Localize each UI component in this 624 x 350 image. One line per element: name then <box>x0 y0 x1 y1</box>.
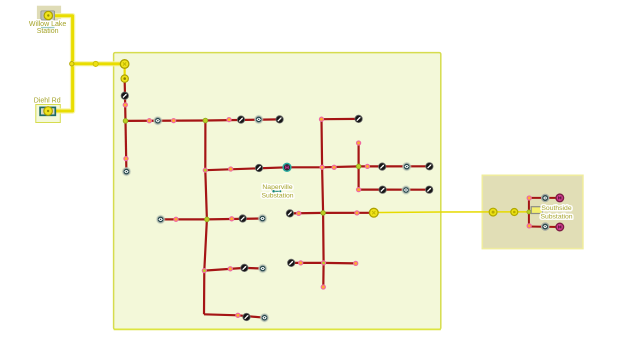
substation symbol Willow Lake <box>41 11 55 20</box>
fuse FU4 <box>156 215 165 224</box>
switch SW4 <box>239 215 246 222</box>
svg-text:Naperville: Naperville <box>262 184 292 191</box>
switch YS2 yellow <box>511 209 518 216</box>
node P5 <box>123 156 128 161</box>
wire line3 tie <box>290 212 374 215</box>
feeder service area Naperville (green box) <box>114 53 441 330</box>
substation area Southside (beige box) <box>482 175 583 248</box>
wire yellow tie line to Southside <box>374 211 529 214</box>
fuse FU9 <box>401 185 410 194</box>
node P1 <box>123 102 128 107</box>
switch SW9 <box>426 163 433 170</box>
switch SW6 <box>243 313 250 320</box>
switch SW2 <box>237 116 244 123</box>
feeder box Diehl Rd <box>36 105 61 123</box>
label Diehl Rd <box>34 97 61 104</box>
node P9 <box>235 313 240 318</box>
svg-text:Substation: Substation <box>540 213 572 220</box>
substation symbol Southside <box>531 207 542 214</box>
switch SW12 <box>288 259 295 266</box>
svg-text:Diehl Rd: Diehl Rd <box>34 97 61 104</box>
node P15 <box>321 284 326 289</box>
switch SW10 <box>355 115 362 122</box>
label Willow Lake Station <box>29 21 66 35</box>
junction Southside tie <box>527 210 531 214</box>
switch SW5 <box>241 264 248 271</box>
feeder symbol Diehl Rd <box>40 107 55 116</box>
wire bottom branch at corner C1 <box>204 314 265 317</box>
node P7 <box>229 216 234 221</box>
node P19 <box>353 261 358 266</box>
junction J3 <box>205 217 210 222</box>
wire Southside top bay <box>529 197 560 199</box>
icon Willow Lake tiny <box>41 27 55 28</box>
node P16 <box>296 211 301 216</box>
breaker BR2 <box>542 223 549 230</box>
node P4 <box>226 117 231 122</box>
label Southside Substation <box>540 205 572 220</box>
node P13 <box>365 164 370 169</box>
wire branch west at cross J3 <box>161 218 207 220</box>
transformer TX2 <box>556 223 564 231</box>
svg-text:Southside: Southside <box>541 205 571 212</box>
wire yellow trunk Willow Lake to Diehl Rd <box>50 16 73 111</box>
wire F1 lateral line1 <box>126 119 280 121</box>
fuse FU8 <box>402 162 411 171</box>
node P22 <box>527 195 532 200</box>
wire yellow stub between breakers <box>123 64 125 79</box>
node P10 <box>228 166 233 171</box>
junction J5 <box>203 168 208 173</box>
node P12 <box>331 165 336 170</box>
fuse FU5 <box>258 214 267 223</box>
substation area Willow Lake (beige box) <box>37 6 61 21</box>
switch SW14 <box>426 186 433 193</box>
node P14 <box>319 117 324 122</box>
wire branch east at cross J3 <box>207 217 263 220</box>
breaker BR1 <box>542 194 549 201</box>
wire Southside bottom bay <box>529 226 560 229</box>
fuse FU7 <box>260 313 269 322</box>
switch SW1 <box>121 92 128 99</box>
node P18 <box>298 260 303 265</box>
wire top branch to switch <box>322 118 359 120</box>
junction J7 <box>321 211 326 216</box>
wire yellow branch into Naperville feeder <box>72 61 125 66</box>
breaker CB3 <box>369 208 378 217</box>
fuse FU1 <box>153 116 162 125</box>
node P23 <box>527 223 532 228</box>
wire F2 main east <box>205 166 429 170</box>
node P6 <box>173 217 178 222</box>
node P2 <box>147 118 152 123</box>
node P11 <box>319 165 324 170</box>
breaker CB2 donut <box>121 75 128 82</box>
svg-text:Station: Station <box>37 28 59 35</box>
wire F1 stub down <box>124 121 127 172</box>
wire line4 <box>291 262 356 265</box>
breaker CB1 <box>120 60 129 69</box>
switch SW13 <box>379 186 386 193</box>
switch SW3 <box>276 116 283 123</box>
wire vertical B <box>358 143 360 190</box>
fuse FU2 <box>254 115 263 124</box>
label Naperville Substation <box>261 184 293 200</box>
switch SW11 <box>286 210 293 217</box>
junction J6 <box>356 164 361 169</box>
regulator RG1 <box>283 163 291 171</box>
wire Southside riser <box>528 197 530 227</box>
node P17 <box>354 210 359 215</box>
wire vertical A <box>322 119 324 287</box>
switch yellow mid <box>93 61 98 66</box>
node P8 <box>228 266 233 271</box>
switch YS1 yellow <box>489 208 497 216</box>
transformer TX1 <box>556 194 564 202</box>
fuse FU6 <box>258 264 267 273</box>
icon Naperville tiny <box>272 190 281 193</box>
junction J1 <box>123 119 128 124</box>
switch SW7 <box>255 164 262 171</box>
junction yellow trunk tap <box>70 62 74 66</box>
junction J2 <box>203 118 208 123</box>
junction J8 <box>321 260 326 265</box>
node P3 <box>171 118 176 123</box>
wire branch at J4 <box>204 268 262 271</box>
wire F1 entry vertical <box>124 83 127 121</box>
node P20 <box>356 140 361 145</box>
fuse FU3 <box>122 167 131 176</box>
junction J4 <box>202 268 207 273</box>
switch SW8 <box>379 163 386 170</box>
svg-text:Substation: Substation <box>261 193 293 200</box>
node P21 <box>356 187 361 192</box>
wire branch B east <box>359 189 430 191</box>
wire main vertical V1 <box>204 121 207 315</box>
